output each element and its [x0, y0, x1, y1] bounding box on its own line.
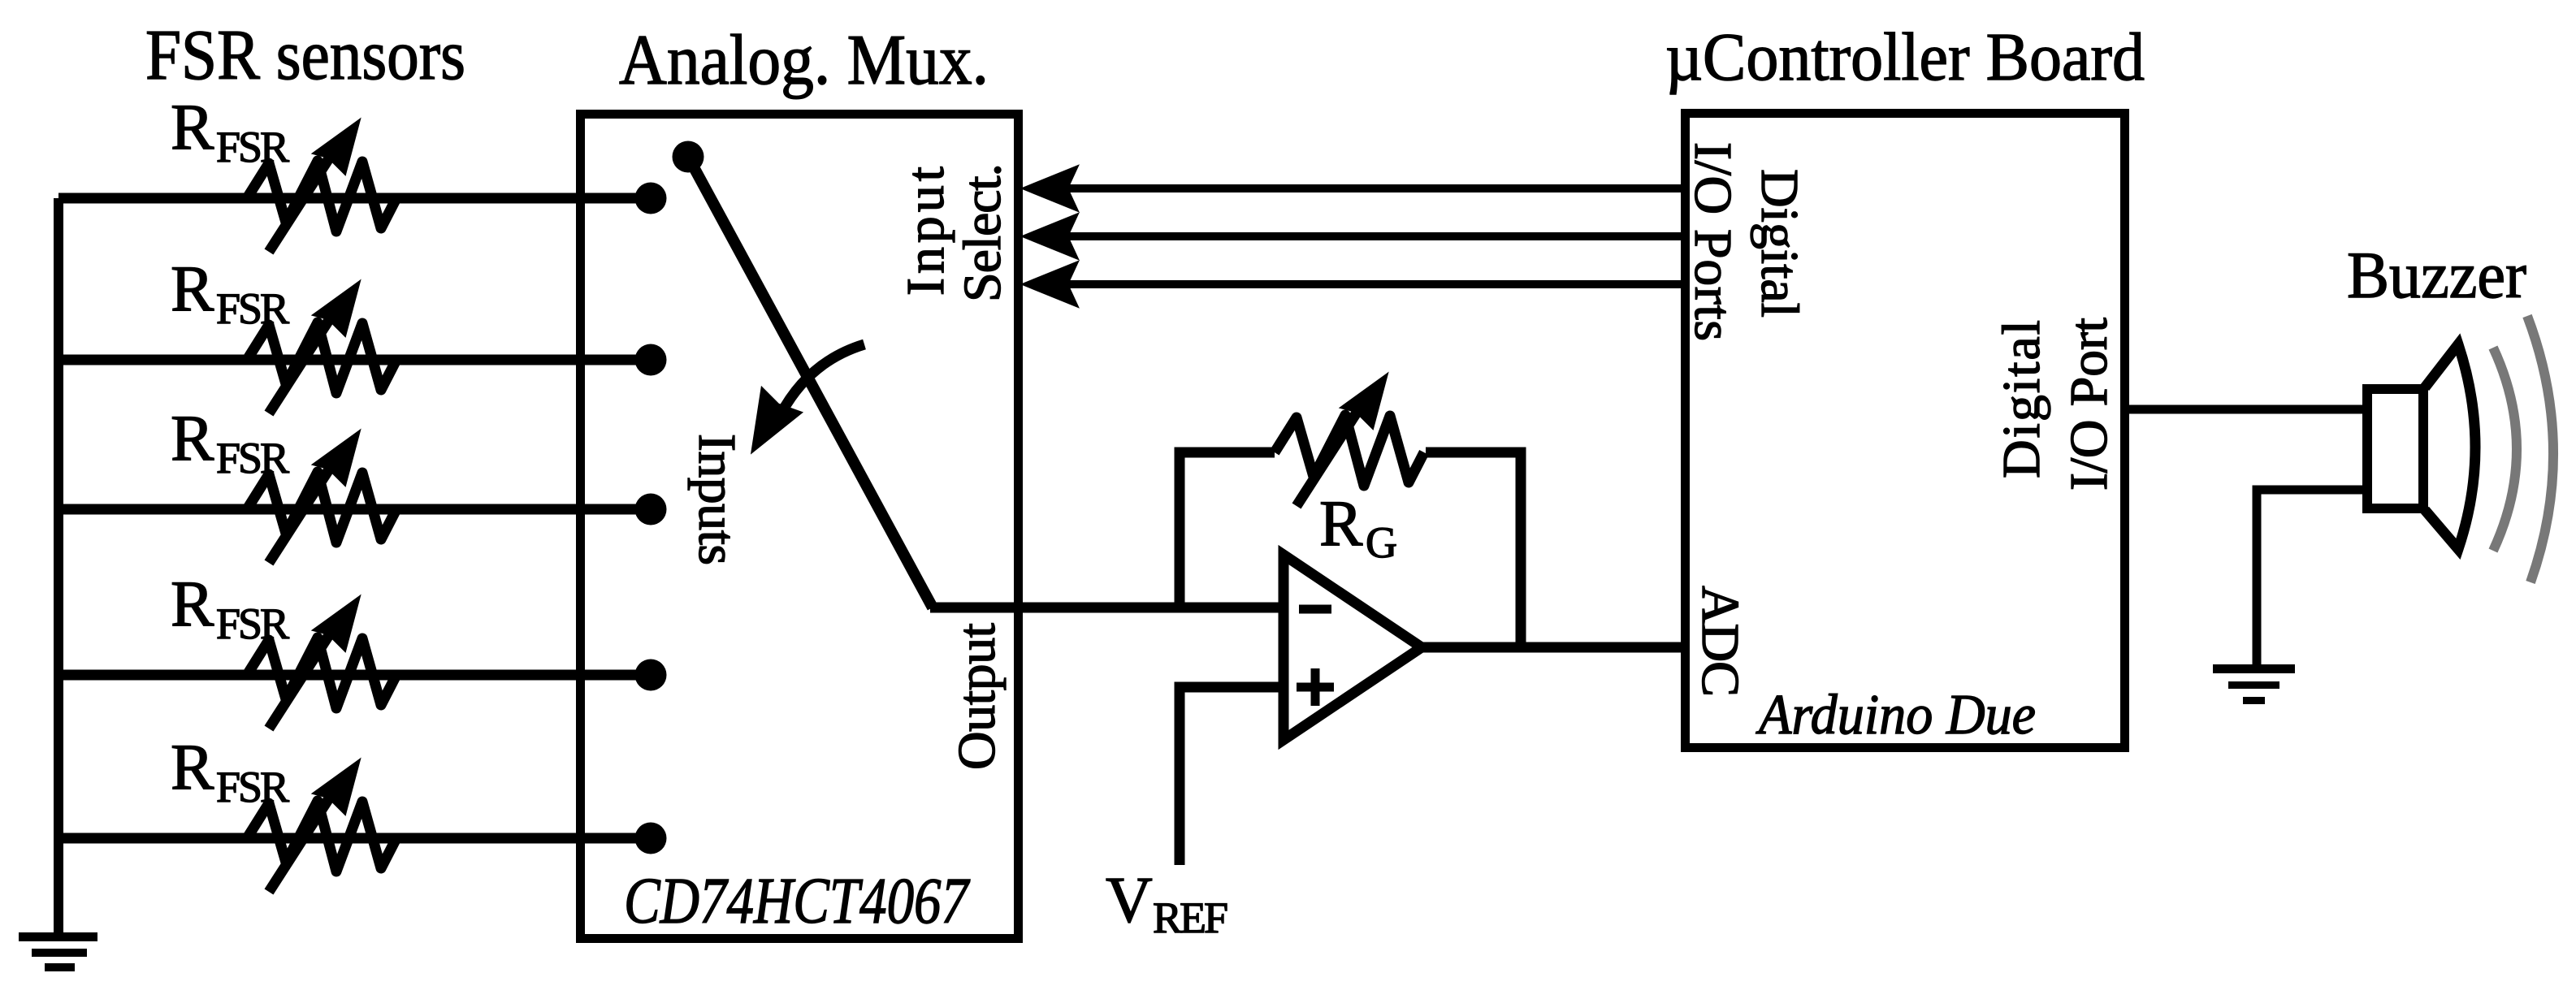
wire row 2 [58, 355, 651, 365]
svg-text:I/O Ports: I/O Ports [1683, 142, 1743, 341]
buzzer LS1 body [2367, 389, 2423, 508]
svg-text:CD74HCT4067: CD74HCT4067 [624, 866, 971, 937]
sound wave arc 2 [2527, 316, 2553, 582]
wire select 1 [1067, 184, 1685, 192]
svg-text:Arduino Due: Arduino Due [1756, 684, 2036, 746]
svg-text:R: R [171, 732, 214, 803]
buzzer horn [2425, 344, 2475, 549]
wire op-amp output to ADC [1422, 642, 1685, 653]
svg-text:G: G [1366, 518, 1397, 567]
node input dot 1 [635, 183, 667, 214]
controller box Arduino Due [1686, 114, 2125, 748]
svg-text:V: V [1106, 865, 1153, 936]
svg-text:Select.: Select. [953, 163, 1012, 302]
svg-text:R: R [171, 92, 214, 163]
resistor R_FSR 4 zigzag [247, 596, 396, 729]
svg-text:Inputs: Inputs [687, 434, 747, 565]
wire feedback left vertical [1180, 452, 1275, 608]
ground left [19, 932, 97, 941]
wire row 4 [58, 670, 651, 681]
svg-text:R: R [171, 569, 214, 640]
svg-text:FSR: FSR [216, 123, 289, 171]
wire feedback right [1426, 452, 1521, 647]
node input dot 5 [635, 823, 667, 854]
node switch pivot dot [673, 141, 704, 173]
node input dot 3 [635, 494, 667, 525]
svg-text:I/O Port: I/O Port [2059, 318, 2119, 491]
svg-text:Buzzer: Buzzer [2347, 238, 2526, 312]
svg-text:Digital: Digital [1992, 320, 2051, 478]
svg-text:REF: REF [1153, 893, 1228, 942]
wire row 3 [58, 504, 651, 515]
svg-text:FSR: FSR [216, 434, 289, 482]
wire select 2 [1067, 232, 1685, 240]
svg-text:ADC: ADC [1691, 586, 1750, 697]
resistor R_FSR 3 zigzag [247, 430, 396, 563]
op-amp minus sign [1299, 605, 1331, 614]
resistor R_FSR 2 zigzag [247, 281, 396, 413]
svg-text:Digital: Digital [1750, 169, 1809, 318]
node input dot 4 [635, 660, 667, 691]
resistor R_G zigzag [1275, 374, 1424, 506]
svg-text:FSR: FSR [216, 599, 289, 648]
node left ground bus [54, 198, 63, 936]
ground buzzer [2213, 664, 2295, 673]
wire row 1 [58, 193, 651, 204]
svg-text:FSR: FSR [216, 763, 289, 811]
wire digital I/O port to buzzer [2125, 405, 2367, 414]
svg-text:R: R [171, 403, 214, 474]
mux box CD74HCT4067 [581, 115, 1019, 939]
wire mux output to op-amp inverting input [930, 603, 1284, 613]
switch arm SW1 [688, 157, 933, 608]
op-amp plus sign [1297, 683, 1334, 692]
svg-text:µController Board: µController Board [1665, 19, 2145, 95]
svg-text:Analog. Mux.: Analog. Mux. [619, 21, 989, 100]
wire row 5 [58, 833, 651, 844]
op-amp U1 [1284, 555, 1422, 740]
wire buzzer to ground [2257, 490, 2367, 668]
resistor R_FSR 5 zigzag [247, 759, 396, 892]
svg-text:R: R [1319, 488, 1363, 560]
wire select 3 [1067, 280, 1685, 288]
resistor R_FSR 1 zigzag [247, 119, 396, 252]
wire V_REF to op-amp non-inverting input [1180, 687, 1284, 865]
svg-text:Output: Output [947, 623, 1007, 770]
svg-text:FSR sensors: FSR sensors [145, 16, 465, 95]
svg-text:FSR: FSR [216, 284, 289, 333]
svg-text:R: R [171, 253, 214, 325]
sound wave arc 1 [2493, 348, 2517, 551]
node input dot 2 [635, 344, 667, 376]
switch rotation arrow [780, 344, 864, 416]
